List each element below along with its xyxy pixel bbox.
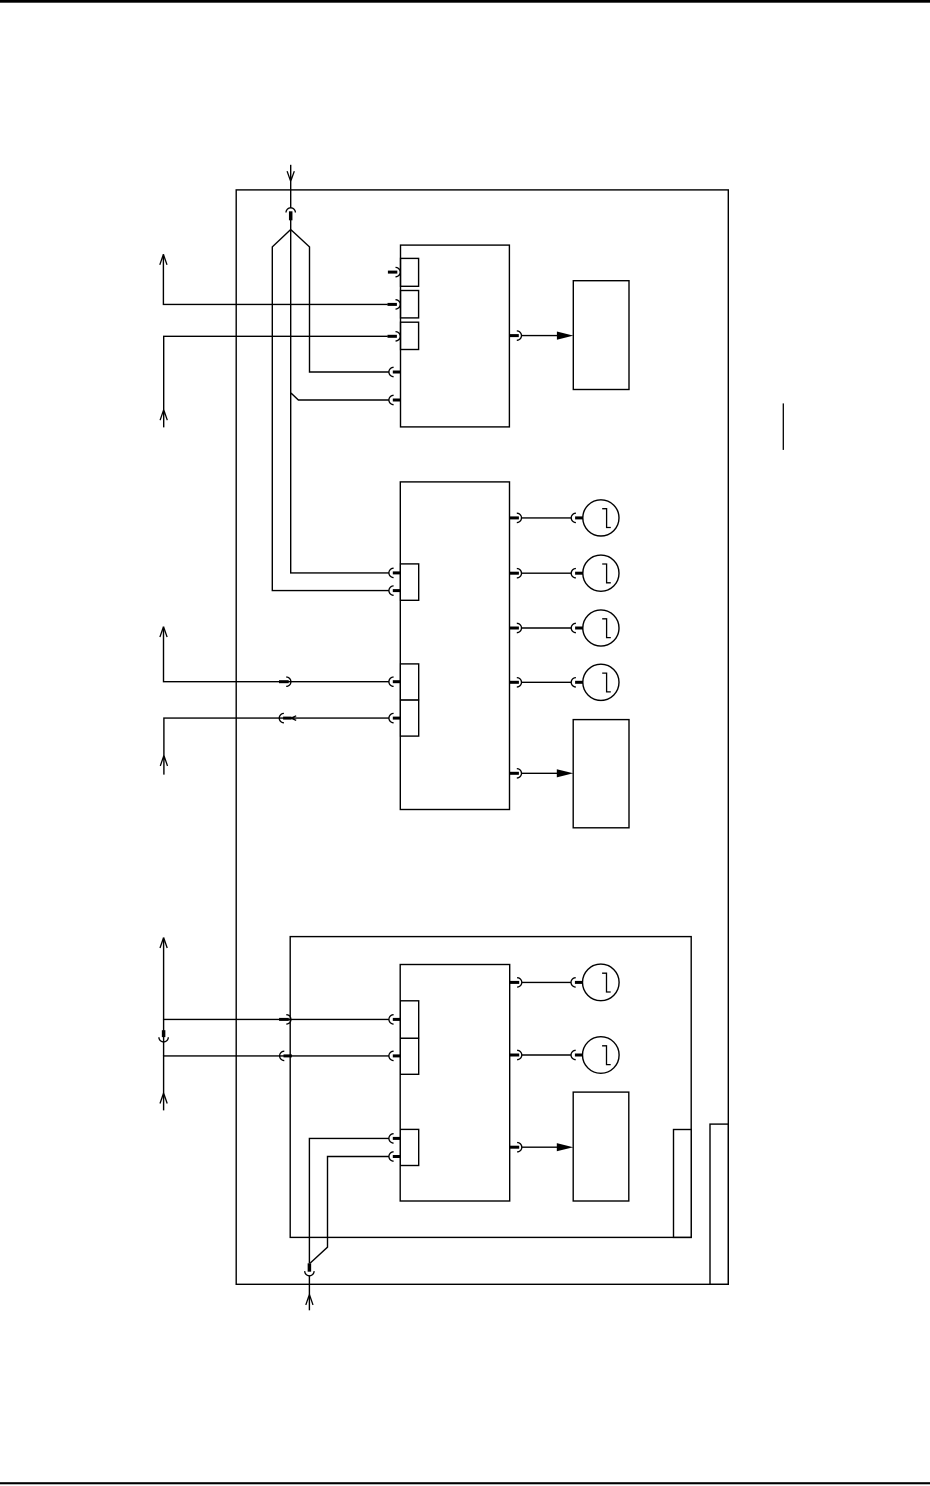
A4 mid connector arc xyxy=(279,713,284,722)
U2 lamp3 block-side arc xyxy=(517,623,522,632)
U1 pin box A xyxy=(401,258,419,286)
bottom exit connector dash xyxy=(308,1263,312,1271)
output box O3 xyxy=(573,1092,629,1201)
U1 in3 connector dash xyxy=(388,335,397,338)
U2 lamp2 block-side arc xyxy=(517,569,522,578)
header rule xyxy=(0,0,930,3)
U3 pin box H xyxy=(400,1038,419,1074)
U3 pin1 connector arc (G) xyxy=(389,1015,394,1024)
U1 in5 connector dash xyxy=(393,399,401,402)
U3 lamp1 lamp-side arc xyxy=(571,978,576,987)
output box O1 xyxy=(573,281,629,390)
U2 lamp wire 4 xyxy=(522,681,572,683)
U2 output connector arc xyxy=(517,769,522,778)
block U2 xyxy=(400,482,509,810)
U1 output connector dash xyxy=(510,334,519,337)
connector box R1 on inner boundary xyxy=(674,1130,692,1238)
lamp circle L5 xyxy=(583,964,620,1001)
top entry connector dash xyxy=(289,211,293,220)
U2 pin4 connector arc (F) xyxy=(389,713,394,722)
U2 output connector dash xyxy=(510,772,519,775)
U1 output arrowhead xyxy=(557,332,573,340)
A5 up arrowhead xyxy=(160,938,167,949)
bottom exit up arrowhead xyxy=(306,1294,313,1305)
U3 output arrowhead xyxy=(557,1143,573,1151)
U2 lamp4 lamp-side arc xyxy=(571,678,576,687)
U1 in4 connector arc xyxy=(389,367,394,376)
U2 lamp1 block-side arc xyxy=(517,513,522,522)
U3 lamp wire 1 xyxy=(522,981,571,983)
left flow-down connector arc xyxy=(159,1037,168,1042)
lamp circle L3 xyxy=(583,610,619,646)
U3 pin box I wire 2 xyxy=(310,1157,389,1264)
wire A4 xyxy=(164,718,389,775)
A3 mid connector dash xyxy=(279,680,289,683)
A4 mid connector dash xyxy=(283,717,291,720)
lamp circle L2 xyxy=(583,555,619,591)
U3 lamp1 block-side arc xyxy=(517,978,522,987)
A4 mid up arrowhead xyxy=(160,755,167,766)
lamp L2 glyph xyxy=(602,564,611,583)
left flow-down connector dash xyxy=(162,1030,166,1037)
lamp circle L1 xyxy=(583,500,619,536)
connector box R2 on outer boundary xyxy=(710,1124,728,1284)
U3 output connector arc xyxy=(517,1143,522,1152)
top entry connector arc xyxy=(286,208,295,213)
lamp L5 glyph xyxy=(602,973,611,992)
lamp L3 glyph xyxy=(602,619,611,638)
U2 pin1 connector dash (D) xyxy=(393,571,401,574)
U1 pin box B xyxy=(401,291,419,318)
A5 mid connector arc xyxy=(286,1015,291,1024)
U2 lamp wire 3 xyxy=(522,627,572,629)
U2 lamp wire 1 xyxy=(522,517,572,519)
U3 output connector dash xyxy=(510,1146,519,1149)
U3 pin2 connector arc (H) xyxy=(389,1051,394,1060)
U3 lamp wire 2 xyxy=(522,1054,571,1056)
U1 in1 connector dash xyxy=(388,271,397,274)
U2 lamp2 lamp-side dash xyxy=(575,572,583,575)
wire A1 xyxy=(163,254,387,304)
U3 lamp2 block-side arc xyxy=(517,1050,522,1059)
bottom exit wire xyxy=(308,1276,310,1311)
U1 in2 connector arc xyxy=(396,300,401,309)
U3 pin1 connector dash (G) xyxy=(393,1018,400,1021)
wire A2 xyxy=(164,336,388,427)
U2 lamp4 lamp-side dash xyxy=(575,681,583,684)
inner boundary rect xyxy=(290,937,691,1238)
top entry stem xyxy=(290,220,292,230)
lamp L6 glyph xyxy=(602,1046,611,1065)
footer rule xyxy=(0,1482,930,1484)
U3 lamp2 lamp-side arc xyxy=(571,1050,576,1059)
outer boundary rect xyxy=(236,190,728,1284)
output box O2 xyxy=(573,720,629,828)
U2 lamp3 lamp-side arc xyxy=(571,623,576,632)
top entry down arrowhead xyxy=(287,171,294,181)
U1 output connector arc xyxy=(517,331,522,340)
U2 lamp4 block-side dash xyxy=(510,681,519,684)
U2 pin box E xyxy=(400,664,418,700)
lamp circle L6 xyxy=(583,1037,620,1074)
U2 lamp1 lamp-side arc xyxy=(571,513,576,522)
U1 in5 connector arc xyxy=(389,395,394,404)
U2 pin1 connector arc (D) xyxy=(389,568,394,577)
wire A6 xyxy=(164,1056,389,1111)
right margin stub line xyxy=(782,403,784,450)
jog branch wire to U1 in5 xyxy=(291,393,389,400)
A6 mid up arrowhead xyxy=(160,1093,167,1104)
U2 output arrowhead xyxy=(557,769,573,777)
A6 mid connector dash xyxy=(284,1054,292,1057)
U3 lamp2 block-side dash xyxy=(510,1054,519,1057)
U2 lamp wire 2 xyxy=(522,572,572,574)
U2 lamp3 lamp-side dash xyxy=(575,627,583,630)
funnel right arm wire xyxy=(291,230,389,373)
U3 pin I1 connector arc xyxy=(389,1134,394,1143)
U3 pin box I xyxy=(400,1129,419,1165)
block U3 xyxy=(400,965,510,1202)
U1 output wire xyxy=(522,335,558,337)
U1 in1 connector arc xyxy=(396,267,401,276)
U2 lamp2 lamp-side arc xyxy=(571,569,576,578)
A3 up arrowhead xyxy=(160,627,167,638)
A6 mid connector arc xyxy=(280,1051,285,1060)
A1 up arrowhead xyxy=(160,254,167,264)
U3 pin I2 connector arc xyxy=(389,1152,394,1161)
U3 pin I2 connector dash xyxy=(393,1155,400,1158)
left flow-down link wire xyxy=(163,1019,165,1056)
A5 mid connector dash xyxy=(279,1018,289,1021)
U1 in3 connector arc xyxy=(396,332,401,341)
U1 in4 connector dash xyxy=(393,371,401,374)
U2 pin4 connector dash (F) xyxy=(393,717,401,720)
U2 pin box D xyxy=(400,564,418,600)
U2 lamp2 block-side dash xyxy=(510,572,519,575)
U3 pin box G xyxy=(400,1001,419,1038)
funnel center wire xyxy=(291,230,389,573)
U2 pin2 connector dash (D) xyxy=(393,589,401,592)
U2 pin3 connector arc (E) xyxy=(389,677,394,686)
U2 lamp4 block-side arc xyxy=(517,678,522,687)
block U1 xyxy=(401,245,510,427)
funnel left arm wire xyxy=(272,230,389,591)
U1 pin box C xyxy=(401,322,419,349)
U1 in2 connector dash xyxy=(388,303,397,306)
U3 pin I1 connector dash xyxy=(393,1137,400,1140)
U2 pin3 connector dash (E) xyxy=(393,680,401,683)
A2 mid up arrowhead xyxy=(160,410,167,421)
U3 pin2 connector dash (H) xyxy=(393,1054,400,1057)
lamp circle L4 xyxy=(583,664,619,700)
lamp L4 glyph xyxy=(602,673,611,692)
U2 lamp1 block-side dash xyxy=(510,516,519,519)
U3 lamp2 lamp-side dash xyxy=(575,1054,583,1057)
lamp L1 glyph xyxy=(602,509,611,528)
bottom exit connector arc xyxy=(305,1271,314,1276)
U3 pin box I wire 1 xyxy=(309,1138,389,1263)
U3 lamp1 block-side dash xyxy=(510,981,519,984)
U2 pin box F xyxy=(400,700,418,736)
wire A5 xyxy=(164,938,389,1020)
A4 mid connector barbs xyxy=(291,716,296,721)
A3 mid connector arc xyxy=(286,677,291,686)
U3 output wire xyxy=(522,1146,558,1148)
U2 pin2 connector arc (D) xyxy=(389,586,394,595)
U3 lamp1 lamp-side dash xyxy=(575,981,583,984)
U2 lamp3 block-side dash xyxy=(510,627,519,630)
U2 lamp1 lamp-side dash xyxy=(575,516,583,519)
top entry wire xyxy=(290,165,292,208)
U2 output wire xyxy=(522,772,558,774)
wire A3 xyxy=(164,627,389,682)
